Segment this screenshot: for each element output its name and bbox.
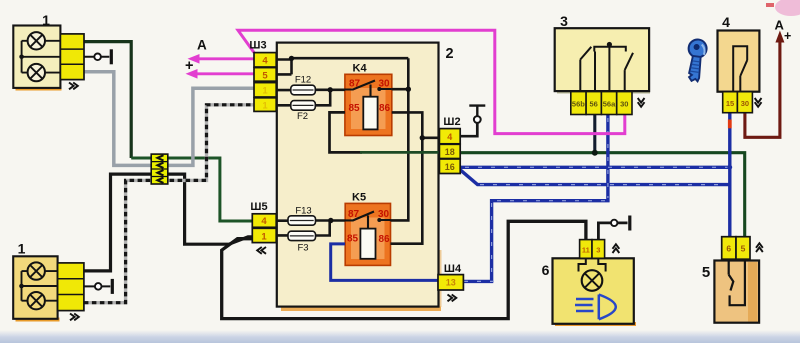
svg-text:5: 5 — [262, 70, 268, 81]
svg-text:85: 85 — [347, 234, 359, 245]
svg-text:86: 86 — [379, 103, 391, 114]
svg-text:16: 16 — [445, 162, 455, 172]
svg-text:30: 30 — [378, 209, 390, 220]
svg-text:Ш4: Ш4 — [444, 263, 462, 275]
svg-text:5: 5 — [702, 264, 710, 281]
svg-text:15: 15 — [726, 99, 734, 108]
svg-text:4: 4 — [262, 56, 268, 67]
svg-text:F13: F13 — [295, 206, 311, 217]
svg-text:3: 3 — [560, 13, 568, 29]
svg-text:56b: 56b — [572, 100, 585, 109]
svg-text:Ш5: Ш5 — [250, 201, 267, 213]
svg-text:6: 6 — [542, 262, 550, 278]
svg-text:5: 5 — [741, 244, 746, 254]
svg-text:6: 6 — [726, 244, 731, 254]
svg-text:4: 4 — [261, 216, 267, 227]
svg-text:4: 4 — [722, 14, 730, 30]
svg-text:30: 30 — [620, 100, 628, 109]
svg-text:87: 87 — [348, 209, 360, 220]
svg-text:1: 1 — [42, 12, 50, 28]
svg-text:4: 4 — [447, 132, 452, 142]
svg-text:K4: K4 — [353, 63, 368, 75]
svg-text:18: 18 — [445, 147, 455, 157]
svg-text:87: 87 — [349, 79, 361, 90]
svg-text:30: 30 — [378, 79, 390, 90]
svg-text:F2: F2 — [297, 111, 308, 122]
svg-text:1: 1 — [262, 86, 268, 97]
svg-text:1: 1 — [262, 100, 268, 111]
svg-text:F12: F12 — [295, 75, 311, 86]
svg-text:56a: 56a — [603, 100, 616, 109]
svg-text:A: A — [197, 38, 207, 53]
svg-text:1: 1 — [18, 241, 26, 257]
svg-text:1: 1 — [261, 232, 267, 243]
svg-text:11: 11 — [582, 246, 590, 255]
svg-text:56: 56 — [590, 100, 598, 109]
svg-text:85: 85 — [348, 103, 360, 114]
svg-text:3: 3 — [596, 246, 600, 255]
svg-text:2: 2 — [445, 46, 453, 62]
svg-text:A: A — [775, 18, 785, 33]
svg-text:30: 30 — [741, 99, 749, 108]
svg-text:86: 86 — [378, 234, 390, 245]
svg-text:13: 13 — [446, 278, 456, 288]
svg-text:+: + — [784, 29, 791, 43]
svg-text:Ш2: Ш2 — [443, 116, 460, 128]
svg-text:F3: F3 — [297, 243, 308, 254]
svg-text:+: + — [185, 58, 193, 74]
svg-text:Ш3: Ш3 — [249, 40, 266, 52]
svg-text:K5: K5 — [352, 192, 366, 204]
